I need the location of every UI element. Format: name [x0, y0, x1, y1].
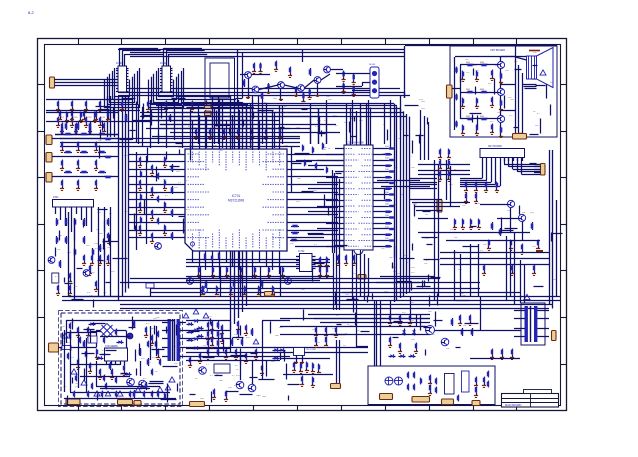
IC701 left pin 12	[181, 237, 185, 239]
connector CN19	[380, 394, 393, 400]
wire	[214, 108, 216, 144]
capacitor C21	[72, 101, 74, 102]
frame zone tick (right)	[561, 224, 568, 226]
ground	[100, 261, 102, 263]
IC201 left pin 10	[340, 200, 344, 202]
connector CN20	[412, 397, 430, 403]
ground	[164, 186, 166, 188]
wire	[454, 250, 456, 300]
capacitor C9	[388, 240, 389, 242]
vertical bus net L7	[128, 96, 130, 289]
IC701 top pin 11	[259, 145, 261, 150]
flyback core	[530, 306, 532, 342]
svg-text:10K: 10K	[404, 255, 408, 257]
vertical bus net L5	[122, 96, 124, 297]
wire	[524, 86, 537, 88]
IC201 right pin 18	[373, 246, 377, 248]
ground	[62, 167, 64, 169]
wire	[150, 120, 250, 122]
wire	[252, 96, 254, 150]
capacitor C34	[100, 117, 102, 118]
bus corner wire	[400, 96, 402, 131]
vertical bus net R1	[549, 150, 551, 305]
ground	[454, 225, 456, 227]
ground	[84, 117, 86, 119]
wire	[291, 237, 324, 239]
P301 pin	[55, 207, 57, 211]
ground	[476, 77, 478, 79]
ground	[476, 131, 478, 133]
IC1 right pin 6	[127, 82, 129, 84]
wire	[321, 74, 330, 80]
IC1 left pin 8	[116, 88, 118, 90]
ground	[192, 108, 194, 110]
resistor R36	[172, 232, 174, 233]
IC2 left pin 5	[160, 79, 162, 81]
diode D9	[414, 329, 416, 336]
frame zone tick (left)	[38, 131, 45, 133]
ground	[62, 149, 64, 151]
wire	[318, 108, 320, 144]
resistor R84	[64, 172, 65, 174]
ground	[510, 246, 512, 248]
capacitor C236	[436, 387, 438, 388]
wire	[376, 282, 420, 284]
wire	[302, 50, 304, 63]
wire	[390, 300, 392, 318]
wire	[52, 138, 119, 140]
IC2 left pin 1	[160, 68, 162, 70]
wire	[239, 256, 241, 271]
wire	[90, 330, 92, 343]
IC701 left pin 1	[181, 154, 185, 156]
wire	[124, 54, 126, 66]
IC2 right pin 3	[171, 73, 173, 75]
ground	[316, 333, 318, 335]
drawing frame outer border	[38, 39, 567, 411]
ground	[316, 343, 318, 345]
wire	[480, 297, 482, 331]
wire	[272, 110, 274, 145]
wire	[166, 108, 168, 148]
wire	[339, 340, 341, 383]
wire	[352, 90, 370, 92]
resistor R65	[462, 328, 464, 329]
connector CN14	[66, 399, 80, 405]
ground	[496, 188, 498, 190]
diode D20	[399, 356, 406, 358]
wire	[377, 160, 388, 162]
wire	[517, 158, 519, 172]
wire	[291, 184, 338, 186]
capacitor C234	[158, 391, 160, 392]
capacitor C156	[430, 385, 432, 386]
frame zone tick (bottom)	[78, 406, 80, 411]
capacitor C63	[210, 129, 212, 130]
IC2 right pin 4	[171, 76, 173, 78]
wire	[291, 230, 338, 232]
IC701 bottom pin 7	[232, 251, 234, 256]
wire	[150, 326, 152, 360]
wire	[86, 211, 88, 226]
resistor R16	[76, 127, 78, 128]
P301 pin	[91, 207, 93, 211]
horizontal net F3	[60, 146, 300, 148]
wire	[186, 266, 330, 268]
wire	[240, 356, 242, 380]
wire	[146, 128, 310, 130]
wire	[335, 148, 340, 150]
ground	[390, 343, 392, 345]
ground	[90, 369, 92, 371]
vertical bus net L4	[118, 96, 120, 301]
wire	[512, 158, 514, 170]
capacitor C55	[152, 210, 154, 211]
diode D10	[89, 324, 96, 326]
ground	[476, 188, 478, 190]
resistor R12	[290, 240, 291, 242]
ground	[410, 321, 412, 323]
svg-text:10K: 10K	[156, 317, 160, 319]
resistor R26	[66, 236, 68, 237]
ground	[96, 355, 98, 357]
wire	[71, 347, 96, 349]
wire	[500, 69, 502, 75]
capacitor C180	[440, 171, 442, 172]
frame zone tick (left)	[38, 364, 45, 366]
wire	[186, 276, 334, 278]
capacitor C126	[200, 353, 202, 354]
IC2 left pin 8	[160, 88, 162, 90]
IC201 right pin 7	[373, 182, 377, 184]
wire	[291, 214, 338, 216]
ground	[158, 355, 160, 357]
wire	[186, 356, 290, 358]
IC201 right pin 3	[373, 160, 377, 162]
ground	[208, 355, 210, 357]
capacitor C51	[152, 165, 154, 166]
capacitor C221	[456, 121, 458, 122]
wire	[384, 104, 386, 144]
ground	[256, 355, 258, 357]
IC701 top pin 10	[252, 145, 254, 150]
frame zone tick (top)	[209, 39, 211, 45]
resistor R37	[206, 280, 208, 281]
wire	[460, 186, 500, 188]
ground	[140, 163, 142, 165]
capacitor C131	[262, 365, 264, 366]
ground	[353, 80, 355, 82]
IC1 left pin 7	[116, 85, 118, 87]
wire	[122, 50, 161, 52]
ground	[70, 291, 72, 293]
flyback pin wire	[537, 328, 549, 330]
vertical net R3	[556, 200, 558, 297]
transistor Q7	[497, 61, 504, 68]
ground	[486, 188, 488, 190]
resistor R19	[104, 156, 105, 158]
wire	[335, 217, 340, 219]
vertical bus net M4	[242, 102, 244, 312]
ground	[320, 263, 322, 265]
maroon polarity mark	[536, 250, 543, 252]
CRT heater bar	[529, 50, 540, 52]
ground	[236, 355, 238, 357]
IC2 right pin 7	[171, 85, 173, 87]
ground	[100, 108, 102, 110]
wire	[169, 54, 208, 56]
resistor R55	[148, 358, 150, 359]
wire	[380, 276, 434, 278]
wire	[515, 46, 517, 57]
wire	[308, 165, 340, 167]
resistor R72	[146, 382, 148, 383]
wire	[55, 85, 119, 87]
ground	[268, 90, 270, 92]
wire	[250, 104, 252, 148]
wire	[96, 330, 100, 332]
capacitor C137	[316, 337, 318, 338]
ground	[208, 328, 210, 330]
CRT funnel symbol	[537, 48, 554, 88]
IC201 top riser wire	[356, 111, 358, 145]
capacitor C163	[296, 86, 298, 87]
wire	[504, 158, 506, 165]
capacitor C17	[148, 101, 150, 102]
ground	[70, 279, 72, 281]
ground	[72, 108, 74, 110]
connector CN17	[190, 402, 205, 407]
capacitor C213	[202, 286, 204, 287]
svg-text:10K: 10K	[323, 147, 327, 149]
IC1 left pin 6	[116, 82, 118, 84]
diode D6	[273, 358, 280, 360]
IC701 top pin 14	[279, 145, 281, 150]
wire	[352, 250, 354, 300]
connector CN12	[205, 111, 212, 116]
capacitor C97	[470, 219, 472, 220]
wire	[248, 78, 250, 95]
ground	[430, 391, 432, 393]
IC701 left pin 9	[181, 214, 185, 216]
IC201 left pin 16	[340, 234, 344, 236]
wire	[410, 178, 437, 180]
frame zone tick (top)	[297, 39, 299, 45]
IC2 right pin 2	[171, 70, 173, 72]
wire	[296, 160, 344, 162]
wire	[308, 188, 340, 190]
vertical bus net L3	[114, 96, 116, 137]
IC701 left pin 3	[181, 169, 185, 171]
transistor Q2	[83, 270, 90, 277]
capacitor C143	[400, 343, 402, 344]
IC701 right pin 7	[287, 199, 291, 201]
capacitor C19	[192, 101, 194, 102]
ground	[152, 216, 154, 218]
ground	[272, 292, 274, 294]
capacitor C184	[104, 337, 106, 338]
frame zone tick (top)	[473, 39, 475, 45]
capacitor C238	[488, 371, 490, 372]
wire	[318, 108, 320, 144]
capacitor C150	[408, 372, 410, 373]
frame zone tick (left)	[38, 177, 45, 179]
wire	[333, 253, 335, 310]
connector CN21	[442, 399, 454, 405]
capacitor C147	[492, 349, 494, 350]
IC702 right pin	[312, 256, 316, 258]
capacitor C67	[266, 129, 268, 130]
capacitor C210	[158, 173, 160, 174]
wire	[460, 118, 497, 120]
svg-text:CRT BOARD: CRT BOARD	[490, 48, 505, 52]
wire	[295, 246, 344, 248]
connector CN15	[118, 400, 133, 405]
capacitor C141	[410, 315, 412, 316]
wire	[360, 104, 362, 144]
wire	[339, 253, 341, 310]
connector CN18	[552, 331, 557, 341]
wire routing loop	[159, 68, 174, 97]
wire	[418, 170, 470, 172]
wire	[156, 326, 158, 356]
IC2 right pin 6	[171, 82, 173, 84]
wire	[291, 207, 338, 209]
capacitor C198	[222, 333, 224, 334]
resistor R49	[492, 222, 494, 223]
capacitor C208	[140, 194, 142, 195]
capacitor C142	[390, 337, 392, 338]
IC201 right pin 10	[373, 200, 377, 202]
capacitor C76	[320, 257, 322, 258]
wire	[262, 100, 264, 144]
diode D15	[187, 332, 194, 334]
warning triangle symbol	[117, 391, 123, 396]
CRT board vertical net	[515, 57, 517, 133]
wire	[280, 334, 430, 336]
warning triangle symbol	[253, 339, 259, 344]
ground	[96, 117, 98, 119]
resistor R48	[500, 126, 502, 127]
ground	[200, 359, 202, 361]
wire	[534, 169, 541, 171]
IC701 bottom pin 13	[272, 251, 274, 256]
IC2 left pin 9	[160, 91, 162, 93]
connector CN2	[46, 135, 52, 145]
resistor R7	[384, 223, 385, 225]
wire	[486, 161, 488, 180]
capacitor C18	[166, 101, 168, 102]
capacitor C139	[390, 315, 392, 316]
ground	[346, 261, 348, 263]
wire	[74, 218, 76, 301]
wire	[418, 232, 530, 234]
IC701 top pin 13	[272, 145, 274, 150]
IC701 right pin 11	[287, 230, 291, 232]
resistor R2	[384, 165, 385, 167]
IC1 right pin 9	[127, 91, 129, 93]
diode D3	[193, 338, 200, 340]
ground	[222, 331, 224, 333]
frame zone tick (right)	[561, 84, 568, 86]
DL201 element 3	[372, 88, 377, 93]
IC201 right pin 15	[373, 228, 377, 230]
ground	[400, 349, 402, 351]
svg-text:10K: 10K	[99, 233, 103, 235]
capacitor C15	[326, 167, 328, 168]
wire	[262, 321, 264, 380]
ground	[466, 188, 468, 190]
ground	[108, 117, 110, 119]
capacitor C47	[58, 285, 60, 286]
ground	[198, 273, 200, 275]
capacitor C200	[238, 329, 240, 330]
ground	[92, 261, 94, 263]
transistor Q3	[155, 243, 162, 250]
ground	[466, 199, 468, 201]
wire routing loop	[154, 74, 179, 103]
capacitor C144	[416, 343, 418, 344]
wire	[55, 134, 118, 136]
capacitor C138	[326, 337, 328, 338]
wire	[377, 240, 388, 242]
connector CN9	[541, 164, 546, 176]
IC701 bottom pin 11	[259, 251, 261, 256]
wire	[198, 104, 200, 144]
capacitor C113	[124, 365, 126, 366]
capacitor C105	[534, 265, 536, 266]
ground	[320, 273, 322, 275]
capacitor C222	[462, 71, 464, 72]
capacitor C228	[74, 391, 76, 392]
wire	[78, 334, 80, 388]
transistor Q11	[518, 214, 525, 221]
frame zone tick (right)	[561, 317, 568, 319]
IC2 right pin 5	[171, 79, 173, 81]
ground	[238, 335, 240, 337]
capacitor C68	[280, 129, 282, 130]
vertical bus net P5	[406, 114, 408, 294]
capacitor C132	[226, 391, 228, 392]
resistor R85	[80, 172, 81, 174]
ground	[478, 225, 480, 227]
wire	[291, 146, 293, 193]
resistor R33	[172, 164, 174, 165]
ground	[538, 246, 540, 248]
wire	[129, 176, 181, 178]
frame zone tick (top)	[385, 39, 387, 45]
wire	[418, 218, 448, 220]
wire	[450, 166, 452, 206]
wire	[66, 332, 96, 334]
frame zone tick (bottom)	[473, 406, 475, 411]
wire	[260, 267, 262, 297]
ground	[246, 331, 248, 333]
wire	[181, 102, 242, 104]
wire	[170, 132, 340, 134]
capacitor C246	[312, 377, 314, 378]
resistor R60	[218, 348, 220, 349]
svg-text:IC201 M24C08: IC201 M24C08	[346, 141, 364, 145]
flyback pin wire	[514, 328, 525, 330]
resistor R69	[310, 68, 312, 69]
capacitor C197	[222, 325, 224, 326]
vertical net between IC701 and IC201	[339, 179, 341, 253]
wire	[96, 331, 98, 348]
wire	[521, 158, 523, 175]
IC701 right pin 9	[287, 214, 291, 216]
IC2 left pin 7	[160, 85, 162, 87]
